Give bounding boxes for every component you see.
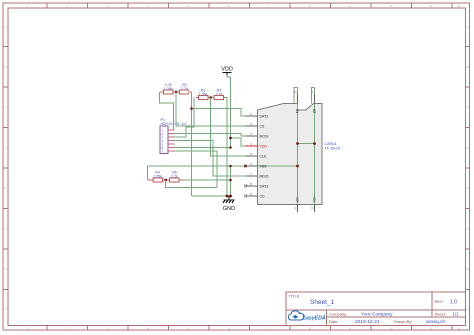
card pin 3 MOSI: [246, 132, 269, 139]
junction GND rail right: [229, 195, 232, 198]
card pin 2 CS: [246, 122, 266, 129]
wire segment joining shield pins inside card: [298, 143, 315, 145]
svg-text:B: B: [4, 65, 6, 69]
card pin 5 CLK: [246, 152, 267, 159]
card pin 9 CD: [244, 192, 265, 199]
card pin 8 DAT1: [244, 182, 268, 189]
frame ticks left: [3, 47, 8, 290]
svg-text:11: 11: [429, 327, 432, 331]
resistor R2 2.2k: [179, 83, 191, 94]
svg-text:DAT2: DAT2: [260, 115, 269, 119]
wire VSS rail: [148, 165, 298, 167]
svg-text:1.0: 1.0: [450, 300, 457, 306]
svg-text:GND: GND: [223, 206, 235, 212]
junction VDD vertical to pin-4 branch: [229, 137, 232, 140]
svg-text:G3: G3: [295, 197, 299, 201]
svg-text:1/1: 1/1: [453, 312, 460, 317]
svg-text:avseq.sh: avseq.sh: [426, 319, 446, 325]
svg-text:MOSI: MOSI: [260, 135, 269, 139]
svg-text:A: A: [466, 25, 468, 29]
junction VSS rail at card pin 6: [244, 165, 247, 168]
svg-text:E: E: [4, 186, 6, 190]
connector P1: [160, 118, 187, 154]
svg-text:TITLE:: TITLE:: [289, 294, 301, 299]
wire VDD branch to pin 4: [231, 138, 246, 146]
card pin 11 G4 bottom: [311, 197, 317, 212]
wire chain2 input from P1 pin3: [175, 98, 195, 138]
svg-text:REV:: REV:: [435, 299, 444, 304]
svg-text:Company:: Company:: [329, 312, 347, 317]
title block outline: [286, 292, 466, 326]
svg-text:10: 10: [389, 4, 393, 8]
wire chain1 input from P1 pin1: [160, 92, 175, 130]
power flag VDD: [221, 67, 233, 76]
svg-text:H: H: [466, 307, 468, 311]
svg-text:10: 10: [389, 327, 393, 331]
svg-text:G2: G2: [312, 109, 316, 113]
svg-text:Drawn By:: Drawn By:: [394, 319, 412, 324]
svg-text:VSS: VSS: [260, 165, 268, 169]
ground symbol GND: [223, 196, 235, 203]
junction VSS rail to GND drop: [229, 165, 232, 168]
wire VDD vertical: [230, 77, 232, 148]
resistor R4 1.05k: [148, 171, 170, 183]
svg-text:12: 12: [457, 4, 461, 8]
wire chain3 2.2k to GND vertical: [183, 179, 231, 181]
resistor R6 2.2k: [170, 171, 184, 183]
junction shield segment left: [296, 142, 299, 145]
junction R6 to GND drop: [229, 179, 232, 182]
junction at DAT2 branch off GND drop: [190, 107, 193, 110]
junction shield segment right: [313, 142, 316, 145]
card pin 10 G3 bottom: [294, 197, 300, 212]
svg-text:A: A: [4, 25, 6, 29]
svg-text:EasyEDA: EasyEDA: [303, 316, 326, 322]
card pin 6 VSS: [246, 162, 268, 169]
frame ticks right: [466, 47, 470, 290]
svg-text:G4: G4: [312, 197, 316, 201]
wire CLK from chain2 output to pin 5: [211, 98, 246, 157]
svg-text:DAT1: DAT1: [260, 185, 269, 189]
svg-text:CARD1: CARD1: [325, 142, 337, 146]
EasyEDA logo: [288, 311, 326, 322]
card CARD1 body: [258, 104, 323, 205]
wire shield hook right: [312, 88, 315, 104]
junction between R5/R2: [175, 91, 178, 94]
svg-text:11: 11: [429, 4, 432, 8]
card pin 7 MISO: [246, 172, 269, 179]
svg-text:Sheet:: Sheet:: [435, 312, 447, 317]
junction between R4/R6: [164, 179, 167, 182]
svg-text:VDD: VDD: [260, 145, 268, 149]
resistor R3 2.2k: [214, 89, 227, 100]
wire VSS rail to chain3 input: [147, 166, 149, 180]
svg-text:12: 12: [457, 327, 461, 331]
wire CS from chain1 output to pin 2: [176, 92, 245, 126]
svg-text:F: F: [5, 227, 7, 231]
card pin 12 G1 top: [294, 91, 300, 114]
svg-text:2019-12-21: 2019-12-21: [355, 319, 380, 325]
wire MISO from P1 pin4 to pin 7: [175, 141, 246, 177]
svg-text:B: B: [466, 65, 468, 69]
TF card socket CARD1: [244, 91, 340, 213]
card pin 13 G2 top: [311, 91, 317, 114]
junction between R1/R3: [209, 96, 212, 99]
junction P1 pin6 rail to VDD vertical: [229, 146, 232, 149]
svg-text:MISO: MISO: [260, 175, 269, 179]
resistor R1 1.05k: [196, 89, 214, 100]
svg-text:CD: CD: [260, 195, 266, 199]
wire GND rail: [192, 195, 231, 197]
junction GND rail left: [226, 195, 229, 198]
junction VSS line at shield wire: [296, 165, 299, 168]
card pin 1 DAT2: [246, 112, 269, 119]
wire VDD symbol jog: [227, 75, 231, 77]
wire chain2 2.2k down to GND rail: [226, 98, 228, 197]
svg-text:VDD: VDD: [221, 67, 233, 73]
wire card shield left vertical: [297, 88, 299, 213]
svg-text:G1: G1: [295, 109, 299, 113]
frame ticks bottom: [47, 326, 452, 331]
resistor R5 1.05k: [160, 83, 180, 94]
junction dots: [190, 107, 316, 197]
svg-text:CLK: CLK: [260, 155, 267, 159]
wire chain1 2.2k down to GND rail: [191, 92, 193, 196]
svg-text:E: E: [466, 186, 468, 190]
wire P1 pin7 to chain3 output: [175, 151, 218, 187]
card pin 4 VDD: [246, 142, 268, 149]
wire VSS branch down to GND: [230, 166, 232, 196]
wire chain3 output run: [166, 180, 217, 187]
svg-text:H: H: [4, 307, 6, 311]
wire shield hook left: [294, 88, 298, 104]
svg-text:TF-15x15: TF-15x15: [325, 147, 340, 151]
svg-text:CS: CS: [260, 125, 266, 129]
wire P1 pin6 rail: [175, 147, 231, 149]
svg-text:F: F: [467, 227, 469, 231]
wire MOSI from P1 pin2 to pin 3: [175, 134, 246, 137]
svg-text:Sheet_1: Sheet_1: [310, 299, 335, 306]
svg-text:Your Company: Your Company: [361, 312, 393, 318]
frame ticks top: [47, 3, 452, 8]
wire DAT2 branch: [192, 109, 246, 117]
svg-text:Date:: Date:: [329, 319, 339, 324]
wire card shield right vertical: [314, 88, 316, 213]
